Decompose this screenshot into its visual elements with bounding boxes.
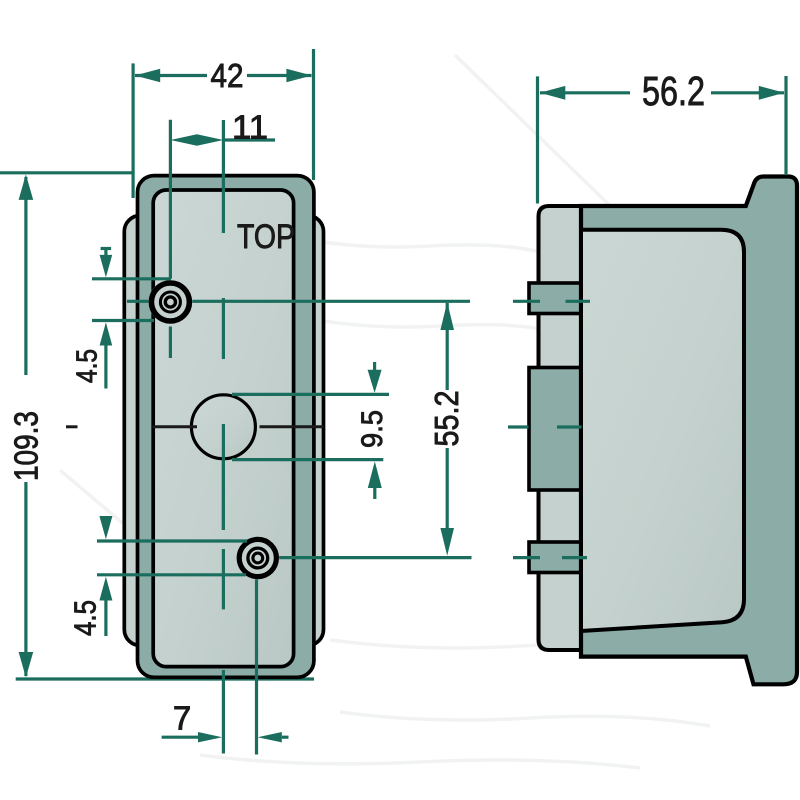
svg-text:42: 42: [211, 57, 244, 94]
svg-text:109.3: 109.3: [8, 411, 45, 481]
svg-text:9.5: 9.5: [356, 410, 389, 448]
svg-text:4.5: 4.5: [72, 349, 104, 383]
svg-text:TOP: TOP: [237, 218, 295, 256]
svg-text:56.2: 56.2: [642, 68, 705, 114]
svg-text:55.2: 55.2: [428, 391, 465, 447]
svg-text:7: 7: [173, 700, 191, 737]
svg-text:4.5: 4.5: [68, 600, 103, 636]
svg-text:11: 11: [232, 109, 268, 146]
